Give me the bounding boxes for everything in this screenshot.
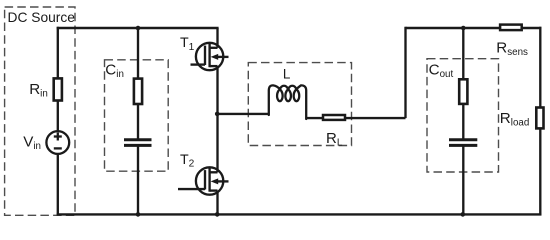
DC Source dashed box xyxy=(5,7,75,215)
wire: C_out ESR to capacitor xyxy=(462,104,464,140)
L / R_L dashed box xyxy=(248,63,351,146)
resistor C_out ESR xyxy=(459,79,467,104)
node: C_in bottom junction xyxy=(136,212,141,217)
svg-text:RL: RL xyxy=(326,130,343,149)
node: T2 source at bottom rail xyxy=(215,212,220,217)
node: C_in top junction xyxy=(136,26,141,31)
wire: T1 source lead xyxy=(216,66,218,114)
wire: source branch top (rail to R_in) xyxy=(57,27,59,79)
wire: R_sens to right corner xyxy=(522,27,542,29)
wire: C_out capacitor to bottom rail xyxy=(462,145,464,214)
inductor L xyxy=(269,85,306,119)
svg-text:T1: T1 xyxy=(180,35,195,53)
node: switch midpoint xyxy=(215,112,220,117)
wire: ESR to capacitor xyxy=(137,104,139,140)
wire: R_in to V_in xyxy=(57,101,59,132)
wire: right branch down to R_load xyxy=(539,27,541,108)
wire: top-left rail xyxy=(57,27,219,29)
node: C_out top junction xyxy=(461,26,466,31)
C_in dashed box xyxy=(105,60,169,171)
resistor R_L xyxy=(323,115,345,120)
wire: V_in to bottom rail xyxy=(57,154,59,216)
wire: inductor to R_L xyxy=(306,117,323,119)
svg-text:L: L xyxy=(283,66,291,81)
wire: T2 source lead xyxy=(216,191,218,215)
wire: output riser xyxy=(404,27,406,118)
wire: C_out branch top xyxy=(462,28,464,79)
resistor C_in ESR xyxy=(134,79,142,104)
resistor R_sens xyxy=(500,25,522,31)
svg-text:DC Source: DC Source xyxy=(8,10,76,25)
wire: T1 drain lead xyxy=(216,28,218,48)
svg-text:Vin: Vin xyxy=(23,134,41,153)
C_out dashed box xyxy=(427,59,499,172)
transistor T2 xyxy=(178,167,229,194)
svg-text:Cin: Cin xyxy=(105,62,124,81)
wire: top-right rail xyxy=(406,27,501,29)
resistor R_load xyxy=(536,108,543,129)
wire: T2 drain lead xyxy=(216,114,218,172)
node: C_out bottom junction xyxy=(461,212,466,217)
svg-text:Rsens: Rsens xyxy=(496,40,528,59)
voltage source V_in xyxy=(46,131,69,154)
transistor T1 xyxy=(191,43,229,70)
capacitor C_in plates xyxy=(124,140,152,146)
capacitor C_out plates xyxy=(449,140,477,146)
svg-text:T2: T2 xyxy=(180,152,195,170)
wire: capacitor to bottom rail xyxy=(137,145,139,214)
resistor R_in xyxy=(54,78,62,100)
wire: R_L to output riser xyxy=(345,117,406,119)
svg-text:Rload: Rload xyxy=(500,110,530,129)
wire: bottom rail xyxy=(57,213,542,215)
wire: midpoint to inductor xyxy=(218,113,269,115)
wire: C_in branch top xyxy=(137,28,139,79)
wire: R_load to bottom rail xyxy=(539,128,541,215)
svg-text:Cout: Cout xyxy=(429,61,454,80)
svg-text:Rin: Rin xyxy=(29,81,48,100)
